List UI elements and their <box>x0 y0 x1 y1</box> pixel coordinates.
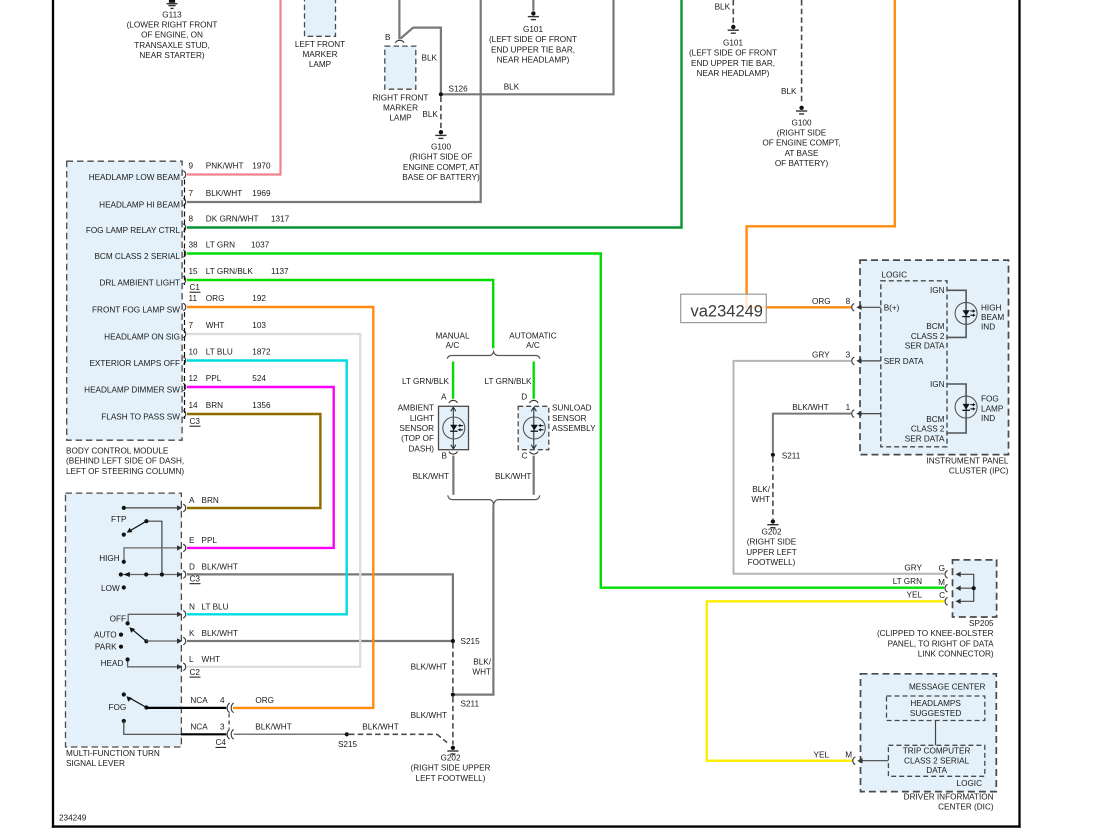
svg-text:OF ENGINE, ON: OF ENGINE, ON <box>141 31 203 40</box>
wire ORG battery feed <box>747 0 895 307</box>
svg-text:(CLIPPED TO KNEE-BOLSTER: (CLIPPED TO KNEE-BOLSTER <box>877 629 994 638</box>
svg-text:BLK/WHT: BLK/WHT <box>202 563 238 572</box>
svg-text:NEAR STARTER): NEAR STARTER) <box>139 51 204 60</box>
BCM pin 9 cup <box>183 171 186 179</box>
NCA 3 label <box>190 723 225 732</box>
svg-text:(LEFT SIDE OF FRONT: (LEFT SIDE OF FRONT <box>489 35 577 44</box>
BCM pin label 10 LT BLU 1872 <box>189 348 271 357</box>
svg-text:FOG: FOG <box>109 703 127 712</box>
svg-text:B: B <box>385 33 391 42</box>
svg-text:LEFT FRONT: LEFT FRONT <box>295 40 345 49</box>
BCM pin label 15 LT GRN/BLK 1137 <box>189 267 290 276</box>
sunload sensor symbol <box>523 407 545 449</box>
svg-text:3: 3 <box>846 351 851 360</box>
LED fog lamp indicator <box>955 396 977 418</box>
ground G202 right label <box>746 528 797 568</box>
svg-text:GRY: GRY <box>812 351 830 360</box>
inline connector cups NCA4 <box>227 703 234 713</box>
sunload sensor label <box>552 404 596 433</box>
ground G202 center label <box>411 754 491 783</box>
svg-text:DASH): DASH) <box>409 444 435 453</box>
BCM pin label 7 BLK/WHT 1969 <box>189 189 271 198</box>
wire BLK/WHT dashed S215 to G202 <box>349 733 437 735</box>
wire BLK to ground G101 upper <box>732 0 734 24</box>
DIC trip computer box <box>888 745 984 776</box>
wire BLK to ground G100 battery <box>801 0 803 104</box>
lever NCA 3 row line <box>181 733 226 735</box>
svg-text:LOGIC: LOGIC <box>957 779 983 788</box>
svg-text:SUGGESTED: SUGGESTED <box>910 709 961 718</box>
splice S211 dot (middle) <box>451 693 455 697</box>
lever FTP arm arrowhead <box>127 528 133 533</box>
svg-text:SENSOR: SENSOR <box>552 414 587 423</box>
lever K arm pivot dot <box>144 639 148 643</box>
svg-text:G: G <box>939 564 945 573</box>
svg-text:C3: C3 <box>190 417 201 426</box>
lever pin E cup <box>183 544 186 552</box>
ground G100 engine compt <box>435 130 446 138</box>
splice pack SP205 box <box>953 560 997 617</box>
svg-text:BLK: BLK <box>504 83 520 92</box>
svg-text:BCM: BCM <box>926 322 944 331</box>
ambient sensor label <box>398 404 435 454</box>
BCM bottom label <box>66 447 184 476</box>
wire DK GRN/WHT 1317 <box>187 0 682 228</box>
SP205 pin C cup <box>945 598 948 606</box>
lever FOG contact dot <box>122 692 126 696</box>
splice S215 dot (lower) <box>345 732 349 736</box>
driver information center box <box>861 674 997 792</box>
svg-text:G101: G101 <box>723 39 743 48</box>
svg-text:SER DATA: SER DATA <box>905 341 945 350</box>
svg-text:MARKER: MARKER <box>383 104 418 113</box>
wire dashed diagonal into G202 <box>437 734 448 743</box>
svg-text:G100: G100 <box>431 143 451 152</box>
IPC bottom label <box>926 457 1008 476</box>
svg-text:FRONT FOG LAMP SW: FRONT FOG LAMP SW <box>92 306 180 315</box>
svg-text:4: 4 <box>220 696 225 705</box>
svg-text:PPL: PPL <box>202 536 218 545</box>
svg-text:15: 15 <box>189 267 199 276</box>
svg-text:E: E <box>189 536 195 545</box>
IPC pin B(+) arrow wire <box>856 305 881 310</box>
svg-text:AT BASE: AT BASE <box>785 149 819 158</box>
svg-text:BLK/WHT: BLK/WHT <box>792 403 828 412</box>
BCM pin 38 cup <box>183 250 186 258</box>
wire to right front marker lamp pin B <box>398 0 400 39</box>
svg-text:OF BATTERY): OF BATTERY) <box>775 159 829 168</box>
svg-text:11: 11 <box>189 294 198 303</box>
lever switch row D line <box>122 574 178 576</box>
svg-text:192: 192 <box>252 294 266 303</box>
svg-text:CLASS 2: CLASS 2 <box>911 332 945 341</box>
svg-text:LOW: LOW <box>101 584 120 593</box>
svg-text:MARKER: MARKER <box>302 50 337 59</box>
svg-text:IND: IND <box>981 323 995 332</box>
svg-text:ORG: ORG <box>255 696 274 705</box>
lever lower contact wire <box>124 721 181 734</box>
IPC logic box <box>881 281 947 447</box>
multi-function turn signal lever box <box>66 493 182 747</box>
svg-text:C: C <box>939 591 945 600</box>
svg-text:BODY CONTROL MODULE: BODY CONTROL MODULE <box>66 447 169 456</box>
svg-text:524: 524 <box>252 374 266 383</box>
svg-text:ORG: ORG <box>206 294 225 303</box>
svg-text:EXTERIOR LAMPS OFF: EXTERIOR LAMPS OFF <box>89 359 180 368</box>
svg-text:DRL AMBIENT LIGHT: DRL AMBIENT LIGHT <box>99 279 180 288</box>
svg-text:LINK CONNECTOR): LINK CONNECTOR) <box>918 650 994 659</box>
svg-text:G202: G202 <box>440 754 460 763</box>
right front marker lamp label <box>373 93 429 122</box>
svg-text:BLK/WHT: BLK/WHT <box>362 723 398 732</box>
lever row D arrowhead <box>124 572 130 577</box>
wire BLK/WHT 1969 <box>187 0 481 202</box>
splice S126 dot <box>439 92 443 96</box>
svg-text:L: L <box>189 655 194 664</box>
svg-text:CLASS 2 SERIAL: CLASS 2 SERIAL <box>904 756 970 765</box>
svg-text:G113: G113 <box>162 10 182 19</box>
svg-text:LEFT FOOTWELL): LEFT FOOTWELL) <box>416 774 486 783</box>
svg-text:HIGH: HIGH <box>99 554 120 563</box>
svg-text:WHT: WHT <box>751 495 770 504</box>
svg-text:SER DATA: SER DATA <box>905 434 945 443</box>
pin B cup <box>395 40 404 43</box>
svg-text:C2: C2 <box>190 668 201 677</box>
svg-text:BLK/WHT: BLK/WHT <box>411 711 447 720</box>
svg-text:IND: IND <box>981 414 995 423</box>
ground G101 near headlamp label <box>689 39 777 79</box>
right front marker lamp box <box>385 46 416 89</box>
lever bottom label <box>66 749 160 768</box>
svg-text:CLASS 2: CLASS 2 <box>911 425 945 434</box>
svg-text:7: 7 <box>189 321 194 330</box>
lever pin D label <box>189 563 238 572</box>
svg-text:1317: 1317 <box>271 215 290 224</box>
wire BLK/WHT pin K to S215 <box>187 640 453 642</box>
svg-text:BLK/WHT: BLK/WHT <box>202 629 238 638</box>
ground G101 near headlamp <box>728 25 739 33</box>
svg-text:1872: 1872 <box>252 348 271 357</box>
svg-text:14: 14 <box>189 401 199 410</box>
svg-text:B: B <box>442 452 448 461</box>
svg-text:BLK/: BLK/ <box>473 658 491 667</box>
svg-text:PPL: PPL <box>206 374 222 383</box>
BCM pin 7 cup <box>183 330 186 338</box>
body control module box <box>67 161 182 440</box>
DIC bottom label <box>904 792 994 811</box>
svg-text:ORG: ORG <box>812 297 831 306</box>
svg-text:BLK: BLK <box>781 87 797 96</box>
svg-text:1: 1 <box>846 403 851 412</box>
svg-text:1037: 1037 <box>251 241 270 250</box>
svg-text:CLUSTER (IPC): CLUSTER (IPC) <box>949 467 1009 476</box>
svg-text:1970: 1970 <box>252 162 271 171</box>
svg-text:MANUAL: MANUAL <box>435 332 470 341</box>
svg-text:LAMP: LAMP <box>309 60 332 69</box>
svg-text:HIGH: HIGH <box>981 303 1002 312</box>
svg-text:HEADLAMP DIMMER SW: HEADLAMP DIMMER SW <box>84 386 180 395</box>
svg-text:DRIVER INFORMATION: DRIVER INFORMATION <box>904 792 994 801</box>
svg-text:BLK: BLK <box>422 110 438 119</box>
lever switch arm to K <box>131 629 146 642</box>
svg-text:HEADLAMPS: HEADLAMPS <box>910 699 961 708</box>
SP205 pin M cup <box>945 584 948 592</box>
frame bottom border <box>52 825 1021 827</box>
svg-text:G101: G101 <box>523 25 543 34</box>
svg-text:LT GRN/BLK: LT GRN/BLK <box>402 377 450 386</box>
svg-text:CENTER (DIC): CENTER (DIC) <box>938 803 994 812</box>
SP205 internal bus <box>956 572 976 604</box>
lever K arm arrowhead <box>129 627 135 633</box>
svg-text:10: 10 <box>189 348 199 357</box>
lever pin L label <box>189 655 220 664</box>
lever switch row A line <box>124 507 178 509</box>
svg-text:(LEFT SIDE OF FRONT: (LEFT SIDE OF FRONT <box>689 49 777 58</box>
svg-text:D: D <box>521 393 527 402</box>
svg-text:AUTOMATIC: AUTOMATIC <box>509 332 557 341</box>
svg-text:LIGHT: LIGHT <box>410 414 434 423</box>
brace sensors join <box>448 495 540 504</box>
wire WHT 103 <box>187 334 360 667</box>
lever FTP switch arm <box>129 521 147 531</box>
svg-text:(RIGHT SIDE OF: (RIGHT SIDE OF <box>409 153 472 162</box>
wire GRY ser data <box>734 361 945 574</box>
DIC internal link wire <box>935 721 937 746</box>
lever OFF contact dot <box>126 621 130 625</box>
svg-text:UPPER LEFT: UPPER LEFT <box>746 548 797 557</box>
lever pin N cup <box>183 611 186 619</box>
svg-text:END UPPER TIE BAR,: END UPPER TIE BAR, <box>691 59 775 68</box>
SP205 pin G cup <box>945 571 948 579</box>
svg-text:HEAD: HEAD <box>101 659 124 668</box>
svg-text:(BEHIND LEFT SIDE OF DASH,: (BEHIND LEFT SIDE OF DASH, <box>66 457 184 466</box>
svg-text:DATA: DATA <box>926 766 947 775</box>
wire BLK/WHT IPC pin1 <box>773 414 851 453</box>
svg-text:234249: 234249 <box>59 814 87 823</box>
svg-text:(LOWER RIGHT FRONT: (LOWER RIGHT FRONT <box>127 21 218 30</box>
svg-text:G202: G202 <box>761 528 781 537</box>
svg-text:3: 3 <box>220 723 225 732</box>
brace manual/automatic ac <box>447 352 540 359</box>
wire LT BLU 1872 <box>187 361 347 615</box>
wire BLK/WHT dashed S215-S211 <box>452 643 454 693</box>
lever row D junction dot 1 <box>144 572 148 576</box>
svg-text:PANEL, TO RIGHT OF DATA: PANEL, TO RIGHT OF DATA <box>888 639 995 648</box>
lever pin L cup <box>183 663 186 671</box>
ambient sensor pin A cup <box>449 400 458 403</box>
lever pin N arrow <box>177 612 182 617</box>
lever FTP contact dot <box>122 533 126 537</box>
svg-text:BLK/WHT: BLK/WHT <box>413 472 449 481</box>
svg-text:M: M <box>938 578 945 587</box>
svg-text:BLK/: BLK/ <box>752 485 770 494</box>
svg-text:AUTO: AUTO <box>94 631 117 640</box>
frame left border <box>52 0 54 828</box>
svg-text:(RIGHT SIDE: (RIGHT SIDE <box>777 129 827 138</box>
wire YEL sp205 <box>707 601 944 760</box>
lever connector C2 label <box>190 668 201 677</box>
svg-text:A: A <box>441 393 447 402</box>
svg-text:9: 9 <box>189 162 194 171</box>
ground G100 label <box>402 143 480 183</box>
sunload sensor pin D cup <box>530 400 539 403</box>
svg-text:BEAM: BEAM <box>981 313 1004 322</box>
BCM pin label 38 LT GRN 1037 <box>189 241 270 250</box>
DIC headlamps suggested label <box>910 699 961 718</box>
lever HIGH contact dot <box>122 560 126 564</box>
BCM pin 8 cup <box>183 224 186 232</box>
svg-text:TRIP COMPUTER: TRIP COMPUTER <box>903 747 971 756</box>
svg-text:8: 8 <box>846 297 851 306</box>
IPC BCM CLASS 2 SER DATA label 1 <box>905 322 945 350</box>
sunload sensor pin C cup <box>530 452 539 455</box>
svg-text:BCM CLASS 2 SERIAL: BCM CLASS 2 SERIAL <box>94 252 180 261</box>
lever switch row N line <box>128 614 177 623</box>
lever pin E label <box>189 536 217 545</box>
svg-text:DK GRN/WHT: DK GRN/WHT <box>206 215 259 224</box>
frame right border <box>1018 0 1020 828</box>
va234249 label box <box>681 294 767 322</box>
svg-text:ENGINE COMPT, AT: ENGINE COMPT, AT <box>403 163 479 172</box>
svg-text:BLK/WHT: BLK/WHT <box>495 472 531 481</box>
left front marker lamp box <box>305 0 336 36</box>
wire BLK/WHT sensors return <box>455 504 493 694</box>
svg-text:FLASH TO PASS SW: FLASH TO PASS SW <box>101 413 180 422</box>
lever pin K cup <box>183 637 186 645</box>
IPC pin SER DATA cup <box>852 357 855 365</box>
wire LT GRN/BLK to ambient sensor <box>452 362 454 399</box>
lever switch row A contact dot <box>122 506 126 510</box>
svg-text:NCA: NCA <box>190 723 208 732</box>
svg-text:BCM: BCM <box>926 415 944 424</box>
wire BLK/WHT from ambient sensor <box>452 456 454 495</box>
svg-text:S211: S211 <box>782 452 801 461</box>
DIC pin M arrow wire <box>857 758 888 763</box>
label HIGH BEAM IND <box>981 303 1004 331</box>
svg-text:TRANSAXLE STUD,: TRANSAXLE STUD, <box>134 41 210 50</box>
lever NCA 4 row line <box>146 707 226 709</box>
svg-text:C1: C1 <box>190 283 201 292</box>
svg-text:SER DATA: SER DATA <box>884 357 924 366</box>
lever PARK contact dot <box>119 645 123 649</box>
wire LT GRN/BLK to sunload sensor <box>533 362 535 399</box>
svg-text:8: 8 <box>189 215 194 224</box>
wire BLK/WHT dashed S211-G202 right <box>772 457 774 519</box>
svg-text:LAMP: LAMP <box>981 404 1004 413</box>
lever pin D cup <box>183 571 186 579</box>
lever pin L arrow <box>177 664 182 669</box>
LED high beam indicator <box>955 302 977 324</box>
DIC trip computer label <box>903 747 971 775</box>
wire LT GRN/BLK 1137 <box>187 280 493 348</box>
IPC pin B(+) cup <box>852 304 855 312</box>
svg-text:N: N <box>189 602 195 611</box>
wire ORG 192 <box>187 307 373 708</box>
ambient light sensor symbol <box>443 407 465 449</box>
lever FOG switch arm <box>129 697 147 707</box>
svg-text:WHT: WHT <box>206 321 225 330</box>
BCM pin label 11 ORG 192 <box>189 294 267 303</box>
wire BLK/WHT dashed S211 to G202 <box>452 697 454 745</box>
svg-text:LT GRN/BLK: LT GRN/BLK <box>485 377 533 386</box>
lever switch row K line <box>146 640 177 642</box>
svg-text:NEAR HEADLAMP): NEAR HEADLAMP) <box>697 69 770 78</box>
svg-text:FOG LAMP RELAY CTRL: FOG LAMP RELAY CTRL <box>86 226 181 235</box>
BCM connector C3 label <box>190 417 201 426</box>
svg-text:FOOTWELL): FOOTWELL) <box>748 558 796 567</box>
label BLK/WHT (right of S215-S211) <box>472 658 491 677</box>
left front marker lamp label <box>295 40 345 69</box>
label BLK/WHT 1 <box>792 403 850 412</box>
svg-text:MULTI-FUNCTION TURN: MULTI-FUNCTION TURN <box>66 749 160 758</box>
svg-text:OF ENGINE COMPT,: OF ENGINE COMPT, <box>762 139 840 148</box>
svg-text:C3: C3 <box>190 575 201 584</box>
lever FTP common wire <box>146 521 162 574</box>
wire BLK/WHT pin D to S215 <box>187 574 453 639</box>
svg-text:BLK/WHT: BLK/WHT <box>206 189 242 198</box>
splice S215 dot (middle) <box>451 639 455 643</box>
label FOG LAMP IND <box>981 395 1004 423</box>
ground G100 battery label <box>762 118 840 168</box>
lever FOG arm pivot dot <box>144 705 148 709</box>
lever pin A arrow <box>177 505 182 510</box>
wire BRN 1356 <box>187 414 320 508</box>
svg-text:INSTRUMENT PANEL: INSTRUMENT PANEL <box>926 457 1008 466</box>
label AUTOMATIC A/C <box>509 332 557 351</box>
svg-text:LAMP: LAMP <box>389 114 412 123</box>
ground G113 label <box>127 10 218 60</box>
svg-text:A: A <box>189 496 195 505</box>
svg-text:C4: C4 <box>216 738 227 747</box>
svg-text:FTP: FTP <box>111 515 127 524</box>
svg-text:(TOP OF: (TOP OF <box>401 434 434 443</box>
lever switch row E line <box>124 548 178 562</box>
label ORG 8 <box>812 297 851 306</box>
svg-text:WHT: WHT <box>472 668 491 677</box>
svg-text:BRN: BRN <box>202 496 219 505</box>
label GRY 3 <box>812 351 851 360</box>
lever AUTO contact dot <box>119 633 123 637</box>
BCM connector C1 dashed line <box>184 180 186 286</box>
inline connector cups NCA3 <box>227 730 234 740</box>
svg-text:NCA: NCA <box>190 696 208 705</box>
connector C4 dashed link <box>228 714 230 730</box>
lever lower contact dot <box>122 719 126 723</box>
svg-text:HEADLAMP ON SIG: HEADLAMP ON SIG <box>104 333 180 342</box>
DIC headlamps suggested box <box>887 696 985 721</box>
BCM pin 10 cup <box>183 357 186 365</box>
svg-text:S215: S215 <box>338 740 358 749</box>
BCM pin label 7 WHT 103 <box>189 321 267 330</box>
ground G101 tie bar <box>528 11 539 19</box>
svg-text:LT BLU: LT BLU <box>206 348 233 357</box>
BCM pin 14 cup <box>183 410 186 418</box>
sunload sensor box <box>518 406 549 449</box>
IPC pin SER DATA arrow wire <box>856 358 881 363</box>
svg-text:BASE OF BATTERY): BASE OF BATTERY) <box>402 173 480 182</box>
instrument panel cluster box <box>860 260 1009 455</box>
svg-text:SUNLOAD: SUNLOAD <box>552 404 592 413</box>
svg-text:M: M <box>845 751 852 760</box>
IPC pin 1 arrow wire <box>856 411 881 416</box>
IPC fog lamp ind wire <box>947 384 966 433</box>
svg-text:BLK: BLK <box>422 53 438 62</box>
lever row D junction dot 2 <box>160 572 164 576</box>
BCM pin 11 cup <box>183 303 186 311</box>
svg-text:S211: S211 <box>461 700 480 709</box>
DIC pin M cup <box>853 757 856 765</box>
svg-text:IGN: IGN <box>930 286 945 295</box>
